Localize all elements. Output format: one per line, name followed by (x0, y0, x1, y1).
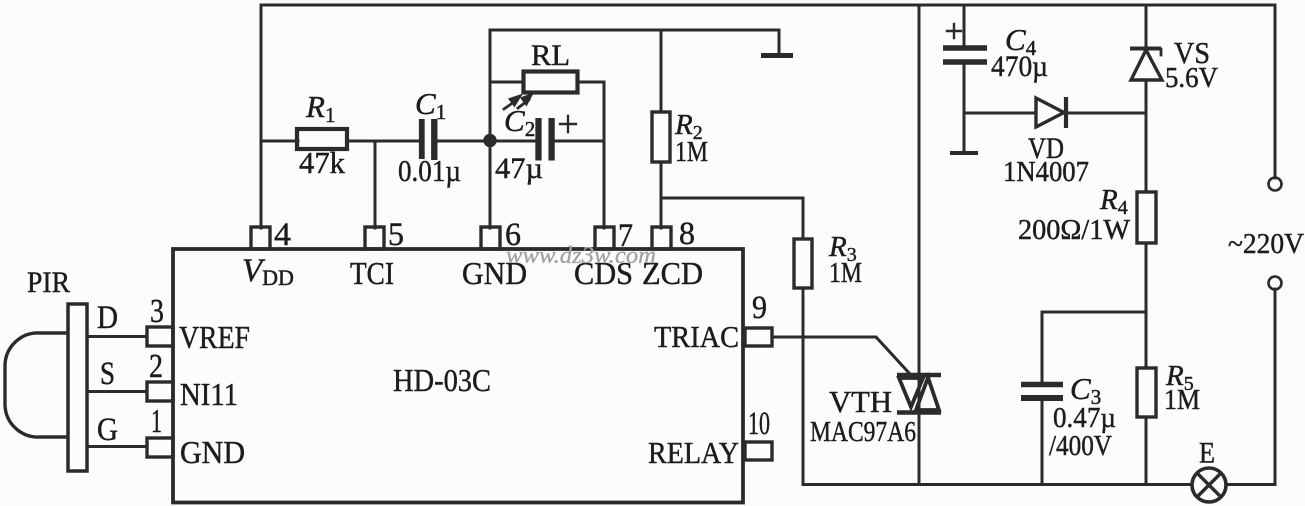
pin GND left label (180, 434, 245, 470)
VS value 5.6V (1165, 62, 1218, 94)
wire VD to VS vertical (1066, 112, 1146, 115)
wire C1 to C2 (436, 140, 536, 143)
pin VDD label (242, 253, 294, 290)
RL label (531, 39, 570, 72)
lead G label (97, 412, 118, 448)
capacitor C2 (539, 118, 552, 161)
pin TRIAC label (654, 319, 739, 354)
ground (761, 53, 793, 58)
wire pin 6 drop (489, 141, 492, 228)
svg-text:E: E (1199, 437, 1215, 470)
wire RL left vertical (489, 30, 492, 141)
terminal upper (1269, 178, 1282, 191)
svg-text:0.01µ: 0.01µ (398, 153, 461, 188)
wire pin 9 to triac gate (772, 337, 910, 374)
wire PIR lead D (87, 335, 147, 338)
svg-text:VTH: VTH (829, 384, 892, 419)
svg-text:PIR: PIR (27, 266, 70, 299)
pin 6 number (505, 217, 521, 253)
pin VREF label (179, 319, 250, 355)
pin 4 box (251, 227, 270, 249)
svg-text:RL: RL (531, 39, 570, 72)
lamp E (1192, 468, 1226, 502)
wire branch R2 to R3 (661, 198, 803, 239)
R4 value 200ohm/1W (1018, 215, 1131, 246)
svg-text:470µ: 470µ (991, 50, 1048, 83)
wire C2 right to pin7 vertical (554, 140, 604, 143)
R3 value 1M (829, 258, 862, 289)
svg-text:47µ: 47µ (495, 152, 543, 185)
C4 plus sign (947, 24, 961, 38)
pin 5 box (365, 227, 384, 249)
wire R2 top (660, 30, 663, 112)
wire PIR lead G (87, 445, 147, 448)
resistor R3 (794, 239, 812, 288)
resistor R5 (1137, 368, 1156, 417)
C4 value 470u (991, 50, 1048, 83)
wire sub rail to ground (490, 30, 779, 54)
svg-text:TCI: TCI (350, 255, 394, 291)
pin 9 number (752, 290, 767, 326)
wire RL left lead (490, 81, 523, 84)
svg-text:1M: 1M (829, 258, 862, 289)
R1 value 47k (299, 145, 345, 180)
pin 3 box (147, 327, 173, 346)
wire R2 bottom to pin 8 (660, 162, 663, 228)
pin GND top label (462, 255, 527, 291)
svg-text:NI11: NI11 (180, 376, 238, 412)
wire right terminal top (1274, 5, 1277, 178)
PIR sensor flange (68, 304, 87, 471)
wire right terminal bottom (1274, 289, 1277, 484)
VD label (1028, 132, 1064, 165)
RL arrows (504, 93, 534, 110)
R1 label (305, 89, 335, 127)
resistor R4 (1137, 192, 1156, 243)
pin CDS label (574, 255, 633, 291)
VTH value MAC97A6 (810, 416, 916, 448)
wire R1 to C1 (348, 140, 420, 143)
svg-text:TRIAC: TRIAC (654, 319, 739, 354)
pin 1 number (151, 403, 162, 440)
IC U1 HD-03C body (173, 249, 743, 503)
VS label (1174, 35, 1210, 70)
svg-text:4: 4 (274, 217, 291, 253)
svg-text:1M: 1M (675, 137, 708, 168)
svg-text:5: 5 (388, 217, 404, 253)
svg-text:G: G (97, 412, 118, 448)
wire C3 branch (1042, 312, 1146, 381)
svg-text:200Ω/1W: 200Ω/1W (1018, 215, 1131, 246)
svg-text:www.dz3w.com: www.dz3w.com (506, 243, 656, 269)
lead D label (97, 300, 118, 336)
capacitor C1 (422, 119, 435, 160)
pin 6 box (481, 227, 500, 249)
capacitor C4 (943, 48, 987, 62)
R4 label (1099, 184, 1128, 219)
C3 value /400V (1049, 431, 1112, 462)
zener diode VS (1130, 49, 1162, 81)
pin 5 number (388, 217, 404, 253)
wire top rail (261, 4, 1275, 7)
VD value 1N4007 (1003, 156, 1089, 188)
svg-text:0.47µ: 0.47µ (1053, 403, 1116, 434)
R5 label (1165, 360, 1194, 395)
C2 value 47u (495, 152, 543, 185)
pin 4 number (274, 217, 291, 253)
wire C4 bottom (963, 64, 966, 152)
C4 end bar (950, 151, 978, 155)
pin TCI label (350, 255, 394, 291)
wire triac vertical top (918, 5, 921, 413)
svg-text:10: 10 (748, 406, 770, 442)
watermark www.dz3w.com (506, 243, 656, 269)
R3 label (828, 231, 857, 266)
wire bottom rail (803, 483, 1275, 486)
pin 2 box (147, 382, 173, 401)
wire C4 to VD (964, 112, 1036, 115)
C3 label (1070, 371, 1101, 409)
wire triac vertical bottom (918, 414, 921, 484)
svg-text:9: 9 (752, 290, 767, 326)
R2 value 1M (675, 137, 708, 168)
svg-text:1M: 1M (1164, 385, 1200, 416)
C1 label (415, 86, 446, 124)
svg-text:5.6V: 5.6V (1165, 62, 1218, 94)
wire VS top (1145, 5, 1148, 50)
resistor R1 (297, 129, 347, 149)
pin 10 number (748, 406, 770, 442)
C1 value 0.01u (398, 153, 461, 188)
svg-text:/400V: /400V (1049, 431, 1112, 462)
svg-text:1: 1 (151, 403, 162, 440)
svg-text:8: 8 (679, 216, 695, 252)
pin 8 number (679, 216, 695, 252)
pin RELAY label (648, 435, 739, 470)
wire C3 bottom (1041, 400, 1044, 484)
wire RL right lead (578, 81, 604, 84)
terminal lower (1269, 277, 1282, 290)
wire pin 5 drop (374, 141, 377, 228)
svg-text:~220V: ~220V (1228, 228, 1304, 260)
svg-text:2: 2 (149, 348, 163, 385)
VTH label (829, 384, 892, 419)
resistor R2 (652, 112, 670, 162)
wire R1 left lead (261, 140, 298, 143)
pin 9 box (745, 328, 772, 346)
svg-text:MAC97A6: MAC97A6 (810, 416, 916, 448)
R2 label (674, 109, 703, 144)
PIR label (27, 266, 70, 299)
svg-text:3: 3 (150, 293, 164, 330)
C4 label (1005, 22, 1037, 60)
node junction dot (483, 134, 496, 147)
pin 8 box (652, 227, 671, 249)
wire R3 bottom (802, 288, 805, 484)
pin 7 box (595, 227, 614, 249)
pin 7 number (618, 218, 633, 254)
PIR sensor dome (5, 333, 68, 437)
wire left vertical from top rail to pin 4 (260, 5, 263, 228)
C2 plus sign (560, 116, 576, 132)
wire pin 7 vertical (603, 82, 606, 228)
wire PIR lead S (87, 390, 147, 393)
triac VTH (897, 375, 941, 413)
svg-text:1N4007: 1N4007 (1003, 156, 1089, 188)
E label (1199, 437, 1215, 470)
wire R5 bottom (1145, 417, 1148, 484)
pin 1 box (147, 438, 173, 457)
svg-text:47k: 47k (299, 145, 345, 180)
svg-text:D: D (97, 300, 118, 336)
wire VS to R4 (1145, 80, 1148, 192)
svg-text:GND: GND (180, 434, 245, 470)
IC label HD-03C (393, 362, 491, 398)
wire R4 to R5 (1145, 243, 1148, 368)
wire C4 top (963, 5, 966, 46)
pin ZCD label (642, 255, 703, 291)
C3 value 0.47u (1053, 403, 1116, 434)
C2 label (504, 103, 535, 141)
capacitor C3 (1021, 385, 1063, 399)
svg-text:RELAY: RELAY (648, 435, 739, 470)
photoresistor RL (524, 72, 578, 93)
pin 10 box (745, 442, 772, 460)
pin 3 number (150, 293, 164, 330)
lead S label (100, 356, 115, 392)
diode VD (1036, 97, 1066, 128)
svg-text:S: S (100, 356, 115, 392)
label ~220V (1228, 228, 1304, 260)
svg-text:HD-03C: HD-03C (393, 362, 491, 398)
svg-text:VREF: VREF (179, 319, 250, 355)
pin NI11 label (180, 376, 238, 412)
R5 value 1M (1164, 385, 1200, 416)
pin 2 number (149, 348, 163, 385)
